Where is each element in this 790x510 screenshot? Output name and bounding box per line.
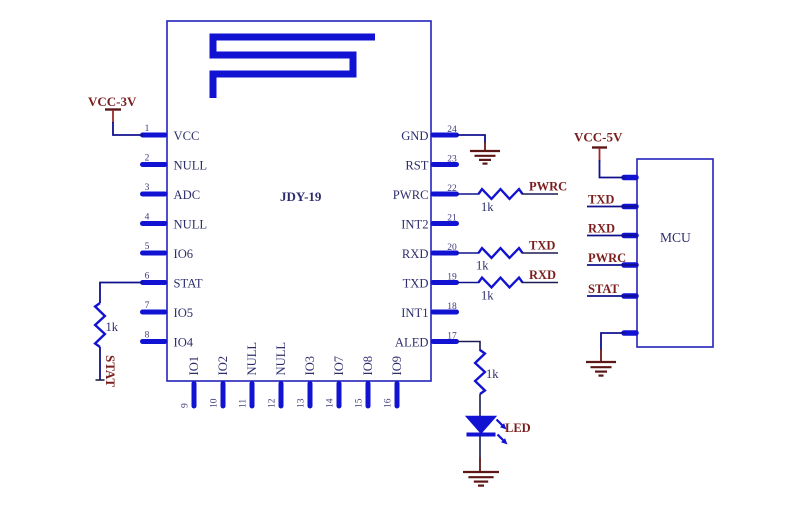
svg-text:NULL: NULL xyxy=(245,342,259,376)
wire pin 24 to ground xyxy=(457,135,485,143)
svg-text:STAT: STAT xyxy=(588,282,619,296)
resistor 1k (STAT pull) xyxy=(95,303,119,347)
svg-text:10: 10 xyxy=(210,398,220,408)
svg-text:VCC: VCC xyxy=(174,129,200,143)
svg-text:8: 8 xyxy=(145,331,150,341)
wire pin stub to resistor (PWRC) xyxy=(457,193,479,195)
svg-text:9: 9 xyxy=(181,403,191,408)
pin 15 IO8 xyxy=(355,356,376,408)
svg-text:INT2: INT2 xyxy=(401,218,428,232)
pin 19 TXD xyxy=(403,273,457,291)
svg-text:1k: 1k xyxy=(486,367,499,381)
pin 11 NULL xyxy=(239,342,260,408)
wire resistor to net PWRC xyxy=(522,193,558,195)
svg-text:19: 19 xyxy=(447,273,457,283)
pin 2 NULL xyxy=(143,154,208,173)
svg-text:1k: 1k xyxy=(481,200,494,214)
svg-text:TXD: TXD xyxy=(529,239,555,253)
svg-text:VCC-3V: VCC-3V xyxy=(88,94,137,109)
svg-text:RXD: RXD xyxy=(402,247,429,261)
svg-text:IO1: IO1 xyxy=(187,356,201,376)
svg-text:IO7: IO7 xyxy=(332,356,346,376)
svg-text:IO9: IO9 xyxy=(390,356,404,376)
power symbol VCC-3V xyxy=(88,94,137,123)
MCU pin xyxy=(624,293,636,299)
svg-text:RXD: RXD xyxy=(529,268,556,282)
wire resistor to STAT label xyxy=(99,347,101,380)
svg-text:2: 2 xyxy=(145,154,150,164)
MCU pin xyxy=(624,330,636,336)
svg-text:1k: 1k xyxy=(106,320,119,334)
svg-text:PWRC: PWRC xyxy=(529,180,567,194)
wire pin stub to resistor (TXD) xyxy=(457,252,479,254)
svg-text:IO3: IO3 xyxy=(303,356,317,376)
pin 20 RXD xyxy=(402,243,457,261)
svg-text:PWRC: PWRC xyxy=(588,251,626,265)
resistor 1k (pin 20 series) xyxy=(476,248,523,272)
net TXD (MCU) xyxy=(587,193,637,207)
svg-text:21: 21 xyxy=(447,214,457,224)
svg-text:4: 4 xyxy=(145,213,150,223)
svg-text:20: 20 xyxy=(447,243,457,253)
wire VCC-5V to MCU xyxy=(600,160,626,178)
MCU pin xyxy=(624,175,636,181)
svg-text:16: 16 xyxy=(384,398,394,408)
pin 18 INT1 xyxy=(401,302,457,320)
pin 14 IO7 xyxy=(326,356,347,408)
MCU U2 body xyxy=(637,159,713,347)
pin 23 RST xyxy=(405,155,457,173)
svg-text:IO2: IO2 xyxy=(216,356,230,376)
resistor 1k (pin 19 series) xyxy=(479,278,523,303)
wire resistor to net TXD xyxy=(522,252,558,254)
pin 13 IO3 xyxy=(297,356,318,408)
svg-text:RST: RST xyxy=(405,159,428,173)
MCU pin xyxy=(624,262,636,268)
svg-text:IO8: IO8 xyxy=(361,356,375,376)
svg-text:15: 15 xyxy=(355,398,365,408)
svg-text:MCU: MCU xyxy=(660,230,691,245)
pin 8 IO4 xyxy=(143,331,194,350)
power symbol VCC-5V xyxy=(574,130,623,162)
pin 12 NULL xyxy=(268,342,289,408)
pin 10 IO2 xyxy=(210,356,231,408)
svg-text:7: 7 xyxy=(145,301,150,311)
pin 16 IO9 xyxy=(384,356,405,408)
svg-text:GND: GND xyxy=(401,129,428,143)
svg-text:12: 12 xyxy=(268,398,278,408)
svg-text:RXD: RXD xyxy=(588,222,615,236)
pin 5 IO6 xyxy=(143,242,194,261)
resistor 1k (LED series) xyxy=(475,350,499,394)
pin 1 VCC xyxy=(143,124,200,143)
wire pin stub to resistor (RXD) xyxy=(457,282,479,284)
pin 17 ALED xyxy=(395,332,457,350)
ground (pin 24) xyxy=(470,151,500,164)
net RXD (MCU) xyxy=(587,222,637,236)
svg-text:IO6: IO6 xyxy=(174,247,194,261)
svg-text:VCC-5V: VCC-5V xyxy=(574,130,623,145)
svg-text:ADC: ADC xyxy=(174,188,201,202)
svg-text:IO4: IO4 xyxy=(174,336,194,350)
svg-text:23: 23 xyxy=(447,155,457,165)
svg-text:ALED: ALED xyxy=(395,336,429,350)
svg-text:NULL: NULL xyxy=(274,342,288,376)
resistor 1k (pin 22 series) xyxy=(479,189,523,214)
svg-text:17: 17 xyxy=(447,332,457,342)
svg-text:NULL: NULL xyxy=(174,218,208,232)
pin 9 IO1 xyxy=(181,356,202,408)
wire VCC-3V to pin 1 xyxy=(113,122,143,135)
svg-text:1: 1 xyxy=(145,124,150,134)
net PWRC (MCU) xyxy=(587,251,637,265)
svg-text:NULL: NULL xyxy=(174,159,208,173)
pin 7 IO5 xyxy=(143,301,194,320)
svg-text:STAT: STAT xyxy=(174,277,203,291)
MCU pin xyxy=(624,204,636,210)
wire resistor to net RXD xyxy=(522,282,558,284)
svg-text:1k: 1k xyxy=(481,289,494,303)
wire LED cathode to ground xyxy=(479,436,481,457)
pin 24 GND xyxy=(401,125,457,143)
svg-text:22: 22 xyxy=(447,184,457,194)
pin 3 ADC xyxy=(143,183,201,202)
svg-text:JDY-19: JDY-19 xyxy=(280,189,322,204)
wire resistor to LED anode xyxy=(479,394,481,417)
svg-text:PWRC: PWRC xyxy=(393,188,429,202)
svg-text:14: 14 xyxy=(326,398,336,408)
pin 21 INT2 xyxy=(401,214,457,232)
svg-text:IO5: IO5 xyxy=(174,306,194,320)
wire pin 6 to resistor xyxy=(100,283,143,304)
svg-text:TXD: TXD xyxy=(403,277,429,291)
svg-text:13: 13 xyxy=(297,398,307,408)
svg-text:STAT: STAT xyxy=(103,355,118,387)
svg-text:TXD: TXD xyxy=(588,193,614,207)
ground (MCU) xyxy=(586,362,616,376)
svg-text:24: 24 xyxy=(447,125,457,135)
svg-text:3: 3 xyxy=(145,183,150,193)
wire MCU GND pin to ground xyxy=(601,333,625,350)
svg-text:INT1: INT1 xyxy=(401,306,428,320)
svg-text:5: 5 xyxy=(145,242,150,252)
pin 22 PWRC xyxy=(393,184,457,202)
MCU pin xyxy=(624,233,636,239)
svg-text:1k: 1k xyxy=(476,259,489,273)
svg-text:LED: LED xyxy=(505,421,531,435)
module U1 JDY-19 body xyxy=(167,21,431,381)
ground (LED) xyxy=(463,472,499,486)
svg-text:18: 18 xyxy=(447,302,457,312)
svg-text:6: 6 xyxy=(145,272,150,282)
antenna meander trace xyxy=(213,37,375,98)
wire pin 17 to resistor xyxy=(457,342,480,352)
pin 6 STAT xyxy=(143,272,203,291)
LED D1 xyxy=(467,417,508,445)
svg-text:11: 11 xyxy=(239,399,249,408)
pin 4 NULL xyxy=(143,213,208,232)
net STAT (MCU) xyxy=(587,282,637,296)
